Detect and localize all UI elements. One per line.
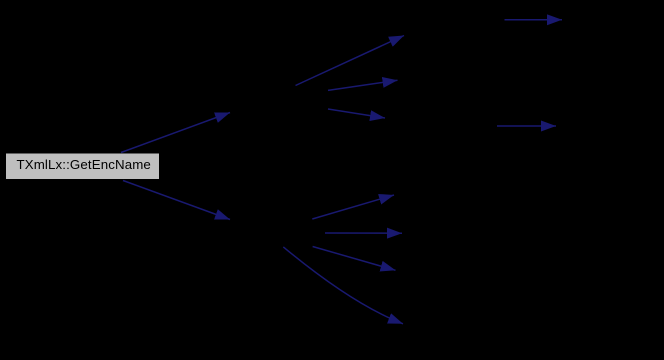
edge F4: lower node -> far bottom-right (curved) — [283, 247, 403, 324]
edge F2: lower node -> right horizontal — [325, 232, 402, 234]
edge G2: upper node -> right node — [328, 80, 398, 90]
edge H2: mid-right horizontal — [497, 125, 556, 127]
edge H1: top-right horizontal — [505, 19, 563, 21]
edge E2: GetEncName -> lower hidden node — [123, 181, 230, 220]
edge E1: GetEncName -> upper hidden node — [121, 113, 230, 153]
edge G3: upper node -> lower-right node — [328, 109, 385, 118]
node TXmlLx::GetEncName — [6, 154, 159, 180]
svg-text:TXmlLx::GetEncName: TXmlLx::GetEncName — [17, 157, 151, 172]
edge G1: upper node -> far upper-right node — [296, 36, 405, 86]
edge F3: lower node -> down-right — [313, 247, 396, 271]
edge F1: lower node -> up-right — [312, 195, 394, 219]
